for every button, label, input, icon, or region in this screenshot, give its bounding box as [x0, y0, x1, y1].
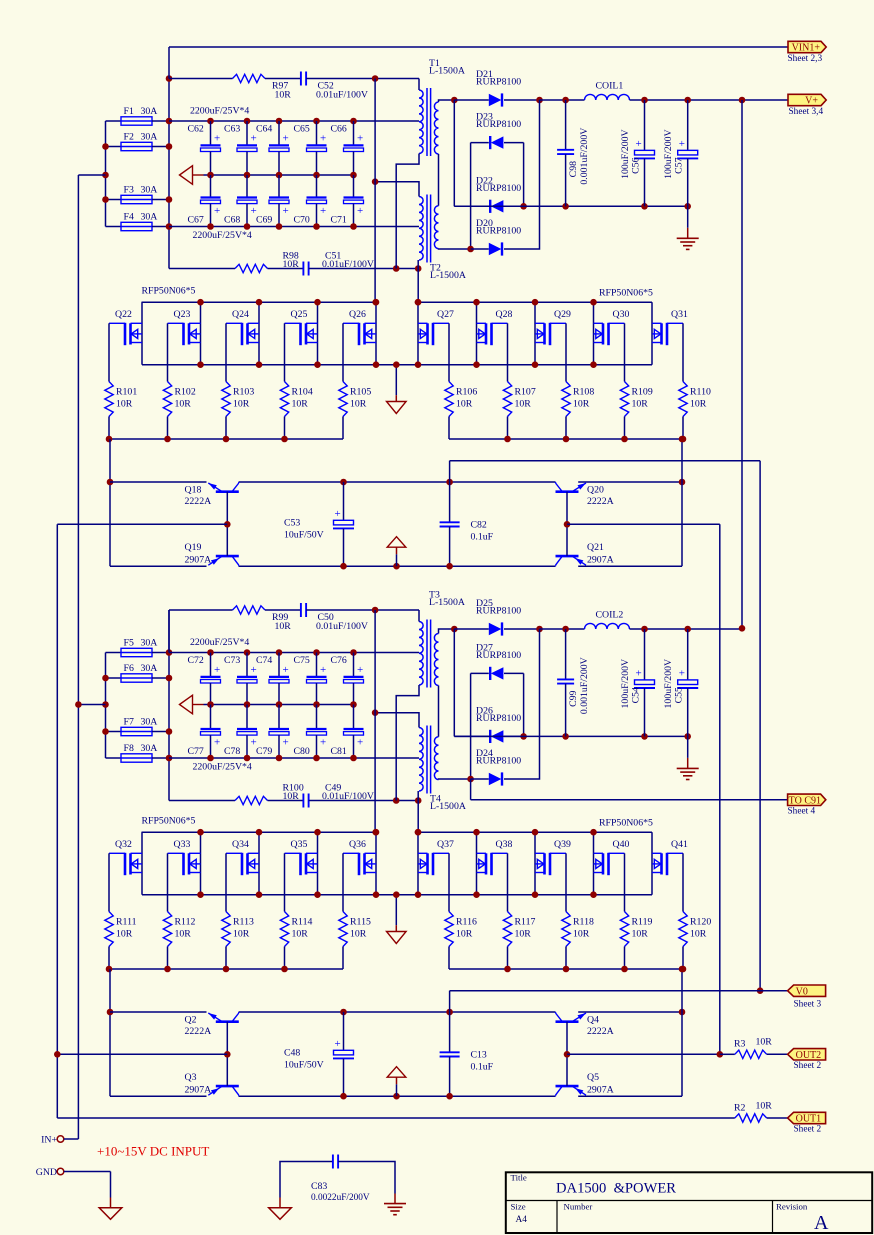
transistor Q18 [208, 482, 239, 492]
pin R106 bottom [448, 417, 450, 440]
pin C80 top [316, 705, 318, 730]
wire GND drop [110, 1172, 112, 1198]
svg-text:C66: C66 [331, 124, 347, 135]
wire F1 output stub [152, 120, 169, 122]
pin R116 bottom [448, 947, 450, 970]
svg-text:V0: V0 [796, 986, 808, 997]
junction V0 node [757, 987, 764, 994]
svg-text:R101: R101 [116, 387, 137, 398]
pin C54 bottom [644, 688, 646, 736]
svg-text:C78: C78 [224, 746, 240, 757]
svg-text:+: + [357, 205, 363, 217]
capacitor C53 [333, 520, 354, 528]
wire IN feed tie [78, 704, 105, 706]
junction Q26 source [373, 361, 380, 368]
junction supply bus [166, 223, 173, 230]
svg-text:30A: 30A [141, 743, 158, 754]
svg-text:Q35: Q35 [291, 839, 308, 850]
junction bottom rail C79 [276, 755, 283, 762]
svg-text:Q3: Q3 [185, 1072, 197, 1083]
wire bridge box right vertical [523, 673, 525, 736]
svg-text:10R: 10R [275, 621, 292, 632]
capacitor C51 [303, 262, 308, 276]
svg-text:+: + [214, 205, 220, 217]
svg-text:2222A: 2222A [185, 1026, 212, 1037]
junction top rail C76 [350, 649, 357, 656]
pin Q26 drain-source column [375, 302, 377, 365]
svg-text:Q25: Q25 [291, 309, 308, 320]
svg-text:F5: F5 [124, 638, 134, 649]
wire Q37 gate to R116 [448, 853, 450, 911]
junction mid rail C75 [313, 701, 320, 708]
junction Q34 source [256, 891, 263, 898]
junction Q26 drain [373, 299, 380, 306]
junction Q33 source [197, 891, 204, 898]
wire cap bank bottom rail [169, 226, 419, 228]
transistor Q21 [556, 556, 587, 566]
diode D21 [489, 94, 502, 106]
wire source rail [142, 894, 652, 896]
junction left R rail [223, 436, 230, 443]
pin Q23 drain-source column [200, 302, 202, 365]
transistor Q29 [535, 323, 566, 345]
pin R118 bottom [565, 947, 567, 970]
junction fuse bus F7 [102, 728, 109, 735]
resistor R103 [222, 382, 230, 417]
wire output rail to coil [540, 628, 585, 630]
pin Q32 drain-source column [141, 832, 143, 895]
junction filter C57 top [684, 626, 691, 633]
junction OUT2 node [717, 1051, 724, 1058]
svg-text:10R: 10R [690, 399, 707, 410]
svg-text:C57: C57 [674, 157, 685, 173]
junction Q38 drain [473, 829, 480, 836]
svg-text:10R: 10R [292, 399, 309, 410]
pin T1 primary bottom [396, 154, 419, 269]
svg-text:Q19: Q19 [185, 542, 202, 553]
pin C78 bottom [246, 735, 248, 758]
svg-text:2200uF/25V*4: 2200uF/25V*4 [190, 637, 249, 648]
junction supply bus [166, 649, 173, 656]
junction bottom rail C78 [244, 755, 251, 762]
svg-text:+: + [679, 667, 685, 679]
junction Q24 source [256, 361, 263, 368]
junction Q23 drain [197, 299, 204, 306]
junction Q4 base [564, 1051, 571, 1058]
wire coil to port rail [630, 99, 789, 101]
wire F7 input stub [106, 731, 122, 733]
junction bottom rail C69 [276, 223, 283, 230]
capacitor C98 [557, 150, 574, 154]
pin R102 bottom [167, 417, 169, 440]
fuse F7 [121, 727, 152, 735]
svg-text:R109: R109 [632, 387, 653, 398]
junction Q28 source [473, 361, 480, 368]
wire driver supply drop top [449, 461, 451, 482]
junction V+ rail branch [739, 97, 746, 104]
pin R111 bottom [108, 947, 110, 970]
junction left R rail [106, 966, 113, 973]
pin R101 bottom [108, 417, 110, 440]
svg-text:C75: C75 [294, 655, 310, 666]
junction Q39 source [532, 891, 539, 898]
pin C79 bottom [278, 735, 280, 758]
pin T3 primary top [418, 610, 420, 622]
pin C13 top [449, 1012, 451, 1052]
svg-text:RFP50N06*5: RFP50N06*5 [142, 286, 196, 297]
svg-text:F8: F8 [124, 743, 134, 754]
wire V0 rail drop [449, 991, 451, 1012]
wire left bus driver [109, 969, 111, 1096]
resistor R113 [222, 912, 230, 947]
svg-text:Q31: Q31 [671, 309, 688, 320]
junction supply bus snubber row [166, 75, 173, 82]
junction power arrow [393, 1093, 400, 1100]
diode D27 [491, 667, 504, 679]
svg-text:R105: R105 [350, 387, 371, 398]
resistor R111 [105, 912, 113, 947]
svg-text:100uF/200V: 100uF/200V [663, 129, 674, 179]
pin C82 bottom [449, 527, 451, 567]
capacitor C50 [301, 603, 306, 617]
junction right drain rail feed [415, 299, 422, 306]
wire bottom rail driver right [578, 1095, 682, 1097]
inductor COIL2 [585, 623, 630, 629]
wire Q41 gate to R120 [682, 853, 684, 911]
junction Q24 drain [256, 299, 263, 306]
svg-text:+: + [320, 664, 326, 676]
pin C66 bottom [353, 152, 355, 176]
wire bottom rail driver [110, 565, 207, 567]
junction top rail C64 [276, 118, 283, 125]
svg-text:R115: R115 [350, 917, 371, 928]
svg-text:R3: R3 [734, 1039, 746, 1050]
junction right R rail [504, 436, 511, 443]
junction top rail C74 [276, 649, 283, 656]
svg-text:TO C91: TO C91 [789, 795, 821, 806]
svg-text:RURP8100: RURP8100 [476, 606, 521, 617]
svg-text:Q30: Q30 [613, 309, 630, 320]
resistor R99 [233, 606, 266, 614]
pin R113 bottom [225, 947, 227, 970]
pin T4 secondary bottom [439, 778, 471, 781]
wire fuse input bus [105, 121, 107, 227]
svg-text:2222A: 2222A [185, 496, 212, 507]
capacitor C55 [677, 680, 698, 688]
svg-text:+: + [357, 132, 363, 144]
wire power arrow stem red [396, 1077, 398, 1084]
svg-text:Q32: Q32 [115, 839, 132, 850]
pin C72 top [210, 653, 212, 677]
wire left drain rail [142, 831, 376, 833]
junction C82 bottom [446, 563, 453, 570]
svg-text:RURP8100: RURP8100 [476, 650, 521, 661]
pin Q18-Q19 base link [226, 492, 228, 556]
capacitor C71 [344, 198, 364, 204]
pin C98 top [565, 100, 567, 150]
transistor Q22 [109, 323, 142, 345]
junction return C57 [684, 733, 691, 740]
wire source rail [142, 364, 652, 366]
pin C70 top [316, 175, 318, 198]
resistor R100 [235, 796, 268, 804]
wire F4 output stub [152, 226, 169, 228]
wire Q27 gate to R106 [448, 323, 450, 381]
svg-text:10R: 10R [116, 399, 133, 410]
svg-text:0.01uF/100V: 0.01uF/100V [316, 90, 368, 101]
capacitor C78 [237, 729, 257, 735]
junction left R rail [223, 966, 230, 973]
wire D26 cathode [454, 735, 489, 737]
svg-text:R103: R103 [233, 387, 254, 398]
wire bottom rail driver mid [239, 565, 556, 567]
junction right R rail [504, 966, 511, 973]
wire filter ground stub red [687, 758, 689, 768]
svg-text:10uF/50V: 10uF/50V [284, 1060, 324, 1071]
junction Q35 source [314, 891, 321, 898]
capacitor C65 [307, 145, 327, 151]
svg-text:Q2: Q2 [185, 1015, 197, 1026]
svg-text:Q27: Q27 [437, 309, 454, 320]
junction top rail C73 [244, 649, 251, 656]
wire Q38 gate to R117 [507, 853, 509, 911]
svg-text:R119: R119 [632, 917, 653, 928]
transistor Q32 [109, 853, 142, 875]
transistor Q36 [343, 853, 376, 875]
resistor R2 [735, 1114, 767, 1122]
junction right R rail [563, 966, 570, 973]
junction mid rail C66 [350, 172, 357, 179]
wire Q33 gate to R112 [167, 853, 169, 911]
wire D27 anode [504, 672, 524, 674]
ground GND terminal [99, 1208, 122, 1220]
resistor R106 [445, 382, 453, 417]
svg-text:2200uF/25V*4: 2200uF/25V*4 [190, 106, 249, 117]
svg-text:10R: 10R [573, 399, 590, 410]
junction bottom rail C77 [207, 755, 214, 762]
pin Q40 drain-source column [593, 832, 595, 895]
svg-text:COIL1: COIL1 [596, 81, 624, 92]
resistor R120 [679, 912, 687, 947]
pin Q34 drain-source column [258, 832, 260, 895]
svg-text:RFP50N06*5: RFP50N06*5 [599, 818, 653, 829]
pin Q41 drain-source column [651, 832, 653, 895]
transistor Q31 [652, 323, 683, 345]
svg-text:Q22: Q22 [115, 309, 132, 320]
svg-text:C63: C63 [224, 124, 240, 135]
capacitor C77 [201, 729, 221, 735]
pin C67 top [210, 175, 212, 198]
wire Q40 gate to R119 [624, 853, 626, 911]
svg-text:Q29: Q29 [554, 309, 571, 320]
wire rectifier return rail [454, 735, 687, 737]
transistor Q19 [208, 556, 239, 566]
resistor R114 [280, 912, 288, 947]
transistor Q20 [556, 482, 587, 492]
pin C64 bottom [278, 152, 280, 176]
capacitor C99 [557, 679, 574, 683]
junction Q29 source [532, 361, 539, 368]
wire power arrow stem [396, 1084, 398, 1096]
junction D21 output [536, 97, 543, 104]
wire R100 row left [169, 800, 235, 802]
junction Q30 drain [590, 299, 597, 306]
transformer T1 secondary winding [434, 102, 438, 154]
transformer T3 [427, 620, 431, 688]
terminal GND [57, 1168, 64, 1175]
wire bridge box right vertical [523, 143, 525, 207]
ground filter [677, 238, 699, 249]
pin C48 top [343, 1012, 345, 1050]
svg-text:R110: R110 [690, 387, 711, 398]
svg-text:Size: Size [511, 1202, 526, 1212]
svg-text:10R: 10R [283, 259, 300, 270]
port OUT1 [788, 1112, 826, 1123]
wire secondary common vertical [453, 629, 455, 736]
capacitor C56 [634, 150, 655, 158]
fuse F1 [121, 117, 152, 125]
svg-text:F3: F3 [124, 185, 134, 196]
wire D23 cathode [471, 142, 489, 144]
wire R98 to C51 [268, 268, 304, 270]
capacitor C80 [307, 729, 327, 735]
svg-text:IN+: IN+ [41, 1135, 57, 1146]
wire GND stub [64, 1171, 111, 1173]
wire source ground stub [395, 365, 397, 396]
wire left gate-resistor rail [109, 968, 343, 970]
junction bottom rail C68 [244, 223, 251, 230]
junction return C98 [562, 733, 569, 740]
pin R115 bottom [342, 947, 344, 970]
svg-text:COIL2: COIL2 [596, 610, 624, 621]
junction Q34 drain [256, 829, 263, 836]
capacitor C76 [344, 677, 364, 683]
svg-text:10R: 10R [175, 929, 192, 940]
svg-text:C76: C76 [331, 655, 347, 666]
pin C63 bottom [246, 152, 248, 176]
pin C71 top [353, 175, 355, 198]
resistor R110 [679, 382, 687, 417]
svg-text:10R: 10R [515, 399, 532, 410]
wire filter ground stub [687, 736, 689, 758]
wire bridge box left vertical [470, 143, 472, 249]
svg-text:+10~15V DC INPUT: +10~15V DC INPUT [97, 1144, 209, 1159]
pin T2 secondary bottom [439, 248, 471, 250]
capacitor C54 [634, 680, 655, 688]
junction mid rail C73 [244, 701, 251, 708]
title block frame [506, 1172, 872, 1233]
svg-text:R114: R114 [292, 917, 313, 928]
wire VIN1+ rail [169, 46, 788, 48]
svg-text:10R: 10R [756, 1037, 773, 1048]
svg-text:C67: C67 [188, 215, 204, 226]
junction Q23 source [197, 361, 204, 368]
wire filter ground stub [687, 206, 689, 228]
pin C65 top [316, 121, 318, 145]
resistor R104 [280, 382, 288, 417]
junction C48 top [340, 1009, 347, 1016]
svg-text:C65: C65 [294, 124, 310, 135]
wire F3 output stub [152, 199, 169, 201]
power port input arrow [180, 166, 193, 185]
junction Q36 source [373, 891, 380, 898]
wire Q29 gate to R108 [565, 323, 567, 381]
pin C74 top [278, 653, 280, 677]
pin R103 bottom [225, 417, 227, 440]
svg-text:Q26: Q26 [349, 309, 366, 320]
svg-text:L-1500A: L-1500A [430, 801, 466, 812]
pin Q24 drain-source column [258, 302, 260, 365]
resistor R97 [233, 74, 266, 82]
wire Q34 gate to R113 [225, 853, 227, 911]
svg-text:C55: C55 [674, 687, 685, 703]
junction snubber row node [372, 607, 379, 614]
junction Q25 source [314, 361, 321, 368]
pin C99 bottom [565, 684, 567, 737]
pin R110 bottom [682, 417, 684, 440]
svg-text:R118: R118 [573, 917, 594, 928]
svg-text:Q33: Q33 [174, 839, 191, 850]
resistor R102 [163, 382, 171, 417]
pin C54 top [644, 629, 646, 680]
svg-text:C98: C98 [568, 161, 579, 177]
wire base rail right [567, 1053, 720, 1055]
power port arrow up [387, 537, 406, 548]
wire base rail left [57, 523, 227, 525]
transformer T2 [427, 195, 431, 263]
svg-text:30A: 30A [141, 106, 158, 117]
junction C48 bottom [340, 1093, 347, 1100]
svg-text:C69: C69 [256, 215, 272, 226]
pin C48 bottom [343, 1059, 345, 1097]
pin Q25 drain-source column [317, 302, 319, 365]
wire D25 anode [454, 628, 489, 630]
junction top rail C75 [313, 649, 320, 656]
junction source ground [393, 361, 400, 368]
pin C72 bottom [210, 683, 212, 705]
wire power arrow stem [396, 554, 398, 566]
junction top rail C72 [207, 649, 214, 656]
junction C13 bottom [446, 1093, 453, 1100]
wire F5 output stub [152, 652, 169, 654]
wire source ground stub red [395, 925, 397, 931]
junction supply bus [166, 143, 173, 150]
wire fuse input bus [105, 653, 107, 759]
svg-text:V+: V+ [805, 96, 818, 107]
junction Q37 source [415, 891, 422, 898]
svg-text:0.01uF/100V: 0.01uF/100V [316, 621, 368, 632]
junction bottom rail C81 [350, 755, 357, 762]
svg-text:RFP50N06*5: RFP50N06*5 [599, 288, 653, 299]
svg-text:Sheet 2,3: Sheet 2,3 [788, 54, 823, 64]
svg-text:Sheet 2: Sheet 2 [794, 1125, 822, 1135]
pin C75 bottom [316, 683, 318, 705]
junction C53 top [340, 479, 347, 486]
capacitor C83 [333, 1155, 338, 1169]
diode D24 [489, 773, 502, 785]
transformer T3 secondary winding [434, 634, 438, 686]
wire C52 to T primary top [306, 78, 419, 80]
pin C68 top [246, 175, 248, 198]
svg-text:30A: 30A [141, 717, 158, 728]
transistor Q24 [226, 323, 259, 345]
wire feedback bus left [56, 524, 58, 1118]
junction mid rail C72 [207, 701, 214, 708]
svg-text:C74: C74 [256, 655, 272, 666]
junction return C56 [641, 203, 648, 210]
pin Q2-Q3 base link [226, 1022, 228, 1086]
capacitor C13 [440, 1052, 460, 1056]
